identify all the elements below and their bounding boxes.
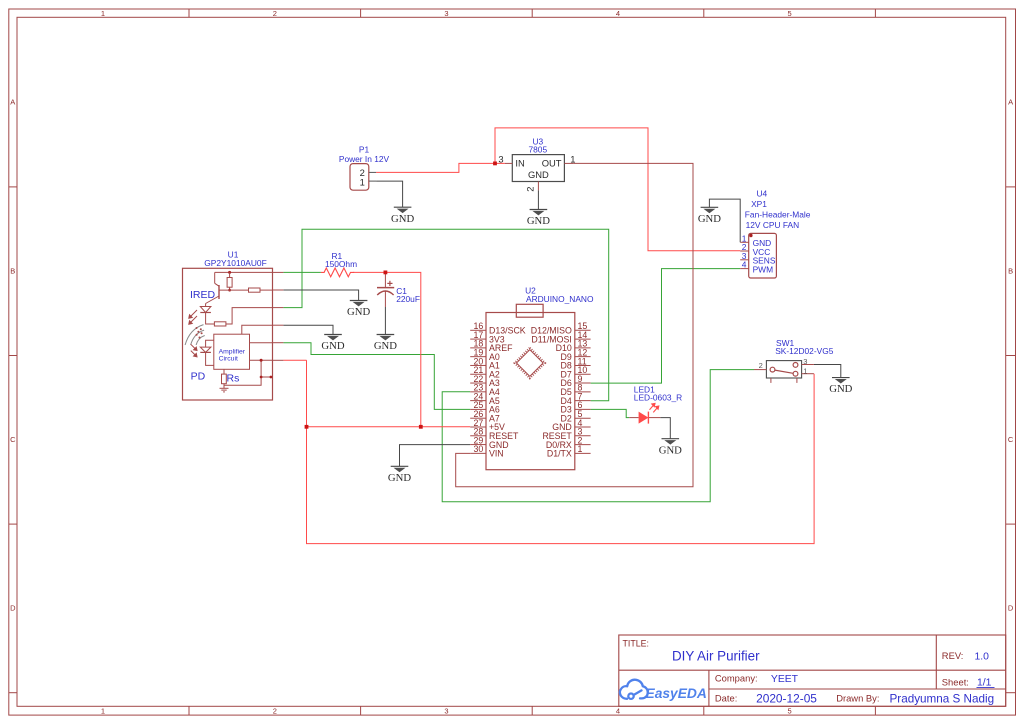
svg-text:220uF: 220uF bbox=[396, 294, 420, 304]
svg-text:PWM: PWM bbox=[753, 265, 773, 275]
svg-text:A: A bbox=[1008, 98, 1013, 107]
svg-text:Date:: Date: bbox=[715, 692, 737, 703]
svg-text:Fan-Header-Male: Fan-Header-Male bbox=[745, 209, 811, 219]
svg-text:3: 3 bbox=[444, 707, 448, 716]
svg-text:3: 3 bbox=[444, 9, 448, 18]
svg-text:5: 5 bbox=[788, 707, 792, 716]
svg-text:Amplifier: Amplifier bbox=[219, 349, 246, 356]
svg-text:Company:: Company: bbox=[715, 672, 758, 683]
svg-text:Power In 12V: Power In 12V bbox=[339, 154, 390, 164]
svg-text:PD: PD bbox=[191, 371, 206, 383]
svg-text:IRED: IRED bbox=[190, 289, 216, 301]
svg-text:OUT: OUT bbox=[542, 158, 562, 169]
svg-text:30: 30 bbox=[474, 444, 484, 454]
svg-text:REV:: REV: bbox=[942, 650, 964, 661]
svg-text:5: 5 bbox=[788, 9, 792, 18]
svg-text:Pradyumna S Nadig: Pradyumna S Nadig bbox=[890, 693, 995, 706]
svg-text:12V CPU FAN: 12V CPU FAN bbox=[746, 220, 800, 230]
svg-text:D: D bbox=[1008, 604, 1014, 613]
svg-text:2020-12-05: 2020-12-05 bbox=[756, 692, 817, 706]
svg-text:GP2Y1010AU0F: GP2Y1010AU0F bbox=[204, 258, 266, 268]
svg-text:2: 2 bbox=[524, 187, 535, 192]
svg-text:XP1: XP1 bbox=[751, 199, 767, 209]
svg-text:ARDUINO_NANO: ARDUINO_NANO bbox=[526, 294, 594, 304]
svg-text:Drawn By:: Drawn By: bbox=[836, 692, 879, 703]
svg-text:EasyEDA: EasyEDA bbox=[646, 686, 707, 701]
svg-text:TITLE:: TITLE: bbox=[623, 639, 649, 649]
svg-text:2: 2 bbox=[273, 707, 277, 716]
svg-text:3: 3 bbox=[498, 153, 503, 164]
svg-text:4: 4 bbox=[742, 260, 747, 270]
svg-text:A: A bbox=[10, 98, 15, 107]
svg-text:7805: 7805 bbox=[528, 145, 547, 155]
svg-text:1: 1 bbox=[101, 707, 105, 716]
svg-text:C: C bbox=[10, 435, 16, 444]
svg-text:1: 1 bbox=[578, 444, 583, 454]
svg-text:D: D bbox=[10, 604, 16, 613]
svg-text:SK-12D02-VG5: SK-12D02-VG5 bbox=[775, 346, 834, 356]
svg-text:Circuit: Circuit bbox=[219, 356, 238, 363]
svg-text:Rs: Rs bbox=[227, 373, 240, 385]
svg-text:3: 3 bbox=[803, 357, 807, 366]
svg-text:1: 1 bbox=[360, 176, 365, 187]
svg-text:1: 1 bbox=[803, 366, 807, 375]
svg-text:B: B bbox=[1008, 266, 1013, 275]
svg-text:1: 1 bbox=[570, 153, 575, 164]
svg-text:4: 4 bbox=[616, 707, 620, 716]
svg-text:C: C bbox=[1008, 435, 1014, 444]
svg-text:B: B bbox=[10, 266, 15, 275]
svg-text:Sheet:: Sheet: bbox=[942, 676, 969, 687]
svg-text:IN: IN bbox=[515, 158, 524, 169]
svg-text:4: 4 bbox=[616, 9, 620, 18]
svg-text:2: 2 bbox=[759, 361, 763, 370]
svg-text:1: 1 bbox=[101, 9, 105, 18]
svg-text:YEET: YEET bbox=[771, 674, 799, 685]
svg-text:D1/TX: D1/TX bbox=[547, 449, 572, 459]
svg-text:1.0: 1.0 bbox=[975, 652, 990, 663]
svg-text:DIY Air Purifier: DIY Air Purifier bbox=[672, 649, 760, 664]
svg-text:1/1: 1/1 bbox=[977, 678, 992, 689]
svg-text:VIN: VIN bbox=[489, 449, 504, 459]
svg-text:150Ohm: 150Ohm bbox=[325, 259, 357, 269]
svg-text:LED-0603_R: LED-0603_R bbox=[634, 393, 682, 403]
svg-text:2: 2 bbox=[273, 9, 277, 18]
svg-text:U4: U4 bbox=[756, 188, 767, 198]
svg-text:GND: GND bbox=[528, 169, 549, 180]
